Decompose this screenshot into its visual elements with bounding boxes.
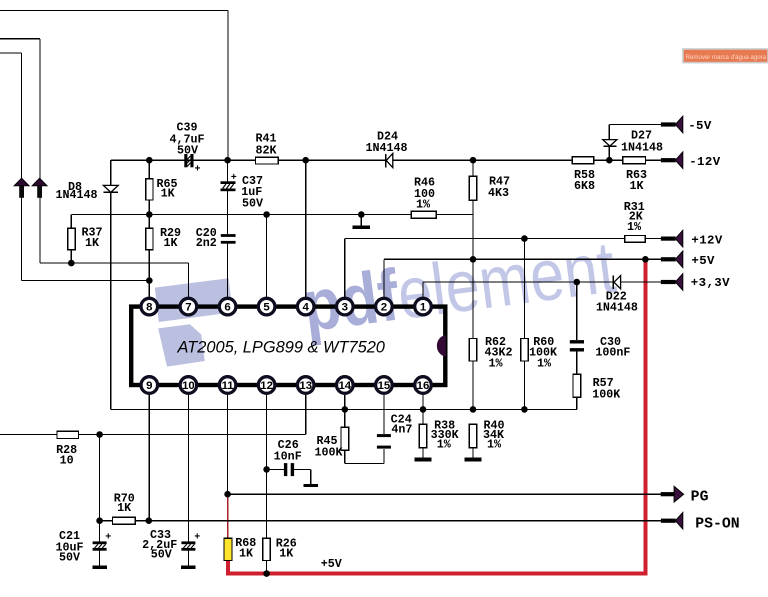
svg-text:6: 6 <box>224 302 230 314</box>
svg-text:10: 10 <box>60 454 74 468</box>
connector +5V <box>661 257 676 261</box>
resistor R70 <box>113 517 136 524</box>
svg-text:4: 4 <box>303 302 310 314</box>
ground R40 <box>465 458 482 462</box>
op-amp U1 IC body AT2005 <box>131 307 445 385</box>
wire C26 stub <box>267 468 284 470</box>
wire pin12/R26 column <box>266 395 268 538</box>
svg-text:1%: 1% <box>437 438 452 452</box>
diode D8 <box>103 185 118 192</box>
wire net below IC y=409.4 <box>111 408 577 410</box>
connector +12V <box>661 237 676 241</box>
svg-text:5: 5 <box>263 302 270 314</box>
wire PG net <box>228 493 662 495</box>
wire left outer L <box>0 38 40 40</box>
svg-text:13: 13 <box>299 380 312 392</box>
resistor R46 <box>411 211 436 218</box>
svg-text:1N4148: 1N4148 <box>596 300 638 314</box>
svg-text:50V: 50V <box>242 196 263 210</box>
wire pin10/C33 column <box>187 395 189 542</box>
svg-text:100K: 100K <box>314 445 343 459</box>
wire C21 column <box>99 435 101 542</box>
wire R45 bottom L <box>344 450 346 463</box>
wire left inner L <box>0 52 22 54</box>
diode D27 <box>603 140 617 147</box>
resistor R45 <box>341 427 349 450</box>
capacitor C21 <box>93 541 107 544</box>
svg-text:6K8: 6K8 <box>574 179 595 193</box>
pin 13 <box>297 377 314 394</box>
svg-text:1N4148: 1N4148 <box>621 141 663 155</box>
svg-text:12: 12 <box>260 380 273 392</box>
wire +5V red bottom run <box>226 571 648 575</box>
resistor R26 <box>263 538 271 560</box>
svg-text:2n2: 2n2 <box>196 236 217 250</box>
resistor R31 <box>625 236 646 243</box>
svg-text:8: 8 <box>146 302 152 314</box>
svg-text:16: 16 <box>417 380 430 392</box>
svg-text:+5V: +5V <box>321 557 342 571</box>
wire +5V red vertical run <box>643 259 647 573</box>
ground C33 <box>181 566 196 569</box>
pin 15 <box>376 377 393 394</box>
pin 14 <box>337 377 354 394</box>
junction dots <box>146 157 153 164</box>
pin 7 <box>180 298 197 315</box>
wire pin2 / +5V net y=259.3 <box>384 258 661 260</box>
svg-text:1%: 1% <box>627 220 642 234</box>
svg-text:1%: 1% <box>487 438 502 452</box>
pin 10 <box>180 377 197 394</box>
connector -12V <box>661 158 676 162</box>
wire pin3 / +12V net y=238.6 <box>345 238 662 240</box>
svg-text:1K: 1K <box>279 547 294 561</box>
wire red thin pin11 to R68 <box>227 494 229 538</box>
diode D22 <box>612 275 614 289</box>
connector PG <box>661 492 675 496</box>
svg-text:PS-ON: PS-ON <box>695 517 739 533</box>
svg-text:PG: PG <box>691 490 709 506</box>
pin 11 <box>219 377 236 394</box>
svg-text:3: 3 <box>342 302 348 314</box>
connector arrow up B <box>32 178 47 186</box>
svg-text:+12V: +12V <box>691 233 723 247</box>
svg-text:+: + <box>194 533 200 544</box>
wire R40 stubs <box>472 448 474 458</box>
svg-text:1N4148: 1N4148 <box>365 141 407 155</box>
svg-text:10nF: 10nF <box>274 450 302 464</box>
svg-text:14: 14 <box>338 380 351 392</box>
capacitor C24 <box>377 434 391 437</box>
svg-text:1K: 1K <box>163 236 178 250</box>
watermark remove button <box>683 49 768 63</box>
capacitor C30 <box>570 340 584 343</box>
svg-text:1%: 1% <box>488 356 503 370</box>
wire R26 bottom <box>266 561 268 574</box>
connector +3,3V <box>661 280 676 284</box>
wire net y=263 to pin 7 <box>40 262 188 264</box>
wire pin16/R38 column <box>422 395 424 424</box>
svg-text:100nF: 100nF <box>595 346 630 360</box>
svg-text:11: 11 <box>222 380 235 392</box>
resistor R29 <box>146 228 153 249</box>
wire R47/R62/R40 column <box>472 160 474 409</box>
svg-text:1K: 1K <box>117 501 132 515</box>
svg-text:100K: 100K <box>592 387 621 401</box>
pin 16 <box>415 377 432 394</box>
svg-text:50V: 50V <box>151 547 172 561</box>
ground C21 <box>92 566 107 569</box>
ground R38 <box>415 458 432 462</box>
wire red stub R68 bottom <box>226 560 230 573</box>
pin 6 <box>219 298 236 315</box>
resistor R63 <box>623 157 646 164</box>
svg-text:-12V: -12V <box>689 155 721 169</box>
svg-text:1K: 1K <box>161 187 176 201</box>
resistor R28 <box>57 431 79 438</box>
connector -5V <box>661 122 676 126</box>
watermark pdfelement text <box>298 227 620 348</box>
diode D24 <box>385 154 387 168</box>
wire R37 bottom <box>70 249 72 263</box>
wire D8 column <box>110 160 112 409</box>
wire R70 / PS-ON net <box>100 520 662 522</box>
svg-text:1K: 1K <box>239 547 254 561</box>
svg-text:AT2005, LPG899 & WT7520: AT2005, LPG899 & WT7520 <box>177 339 385 357</box>
svg-text:1%: 1% <box>537 356 552 370</box>
svg-text:Remover marca d'água agora: Remover marca d'água agora <box>686 54 767 61</box>
svg-text:+3,3V: +3,3V <box>691 276 730 290</box>
svg-text:1%: 1% <box>416 198 431 212</box>
wire net y=280.6 to pin 8 column <box>22 280 150 282</box>
svg-text:4K3: 4K3 <box>488 186 509 200</box>
svg-text:+: + <box>194 165 200 176</box>
pin 12 <box>258 377 275 394</box>
wire ground stub near R46 <box>360 215 362 227</box>
wire -5V net <box>609 124 661 126</box>
connector PS-ON <box>661 519 676 523</box>
wire pin9 column <box>148 395 150 521</box>
pin 9 <box>141 377 158 394</box>
svg-text:9: 9 <box>146 380 152 392</box>
svg-text:50V: 50V <box>59 551 80 565</box>
svg-text:82K: 82K <box>255 143 277 157</box>
resistor R58 <box>572 157 594 164</box>
svg-text:+5V: +5V <box>691 254 715 268</box>
wire R60 column <box>523 239 525 410</box>
wire pin13 to R28 net <box>305 395 307 435</box>
wire net y=214.5 <box>149 214 473 216</box>
pin 4 <box>297 298 314 315</box>
resistor R40 <box>469 424 477 448</box>
resistor R47 <box>469 176 477 200</box>
wire pin6/C37/C20 column <box>227 160 229 181</box>
wire pin1 / +3,3V net y=282 <box>423 281 661 283</box>
wire R37 top link <box>70 215 72 229</box>
wire C33 bottom stub <box>187 551 189 566</box>
pin 5 <box>258 298 275 315</box>
svg-text:+: + <box>231 173 237 184</box>
svg-text:15: 15 <box>378 380 391 392</box>
resistor R41 <box>256 157 279 164</box>
svg-text:7: 7 <box>185 302 191 314</box>
pin 8 <box>141 298 158 315</box>
resistor R38 <box>419 424 427 448</box>
ground C26 <box>303 484 318 487</box>
wire main top net y=160 <box>111 159 662 161</box>
resistor R57 <box>573 374 581 397</box>
wire pin11 column <box>227 395 229 494</box>
capacitor C37 <box>221 181 236 184</box>
svg-text:4n7: 4n7 <box>391 422 412 436</box>
wire pin8/R65/R29 column <box>148 160 150 297</box>
wire pin5 column <box>266 215 268 298</box>
resistor R68 yellow <box>224 538 232 560</box>
svg-text:+: + <box>105 533 111 544</box>
pin 1 <box>415 298 432 315</box>
ground near R46 <box>353 225 371 229</box>
wire pin15/C24 column <box>383 395 385 434</box>
wire pin14/R45 column <box>344 395 346 428</box>
svg-text:1N4148: 1N4148 <box>55 188 97 202</box>
wire top rail to C39 node <box>0 10 228 12</box>
wire pin4 column <box>305 160 307 297</box>
capacitor C20 <box>221 234 236 237</box>
svg-text:1K: 1K <box>85 236 100 250</box>
wire D27 column <box>608 125 610 161</box>
svg-text:50V: 50V <box>177 144 198 158</box>
pin 3 <box>337 298 354 315</box>
capacitor C39 <box>184 154 187 167</box>
IC notch <box>437 336 445 356</box>
svg-text:2: 2 <box>381 302 387 314</box>
svg-text:-5V: -5V <box>688 119 712 133</box>
resistor R62 <box>469 339 477 362</box>
svg-text:1: 1 <box>420 302 427 314</box>
svg-text:1K: 1K <box>629 179 644 193</box>
capacitor C33 <box>181 541 195 544</box>
resistor R60 <box>521 339 529 362</box>
pin 2 <box>376 298 393 315</box>
capacitor C26 <box>284 463 287 476</box>
watermark pdfelement logo square <box>155 278 233 366</box>
wire C30/R57 column <box>576 282 578 340</box>
connector arrow up A <box>14 178 29 186</box>
svg-text:10: 10 <box>182 380 195 392</box>
resistor R65 <box>146 179 153 200</box>
resistor R37 <box>68 228 75 249</box>
